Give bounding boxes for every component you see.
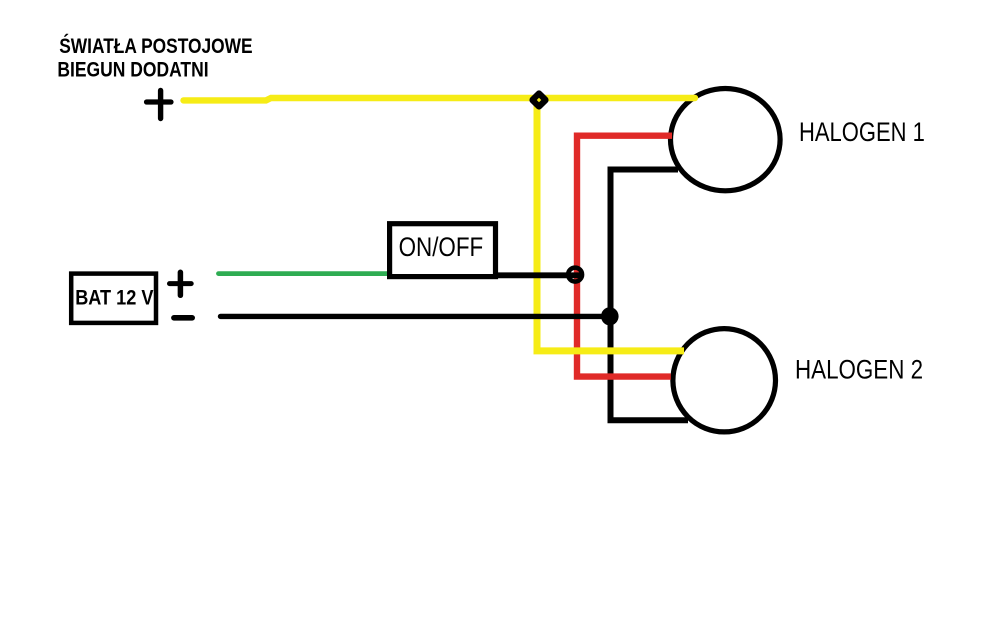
wire yellow: junction down and across to HALOGEN2 [537, 98, 684, 351]
switch ON/OFF box [390, 224, 496, 277]
svg-text:BAT 12 V: BAT 12 V [75, 286, 154, 310]
wire black: switch output to red node [498, 272, 581, 278]
battery plus terminal [170, 272, 192, 295]
svg-text:ON/OFF: ON/OFF [399, 233, 484, 262]
svg-text:BIEGUN DODATNI: BIEGUN DODATNI [57, 59, 208, 82]
svg-text:HALOGEN 2: HALOGEN 2 [795, 354, 923, 385]
lamp HALOGEN 2 [673, 329, 776, 432]
node dot on black return rail [601, 307, 619, 325]
battery minus terminal [174, 315, 192, 321]
plus terminal (parking lights positive) [147, 91, 172, 119]
svg-text:ŚWIATŁA POSTOJOWE: ŚWIATŁA POSTOJOWE [59, 34, 252, 58]
wire black: HALOGEN1 return down to HALOGEN2 return [611, 170, 689, 421]
wire yellow: top feed from plus to HALOGEN1 [184, 98, 696, 100]
wire black: battery minus rail [221, 314, 602, 319]
node ring on red wire at switch output [568, 268, 582, 282]
lamp HALOGEN 1 [671, 88, 781, 190]
battery BAT 12 V box [71, 274, 156, 323]
wire green: battery plus to switch [219, 271, 391, 276]
node diamond on yellow feed [528, 89, 550, 111]
wire red: HALOGEN1 feed down to HALOGEN2 feed [577, 136, 672, 377]
svg-text:HALOGEN 1: HALOGEN 1 [799, 118, 925, 148]
